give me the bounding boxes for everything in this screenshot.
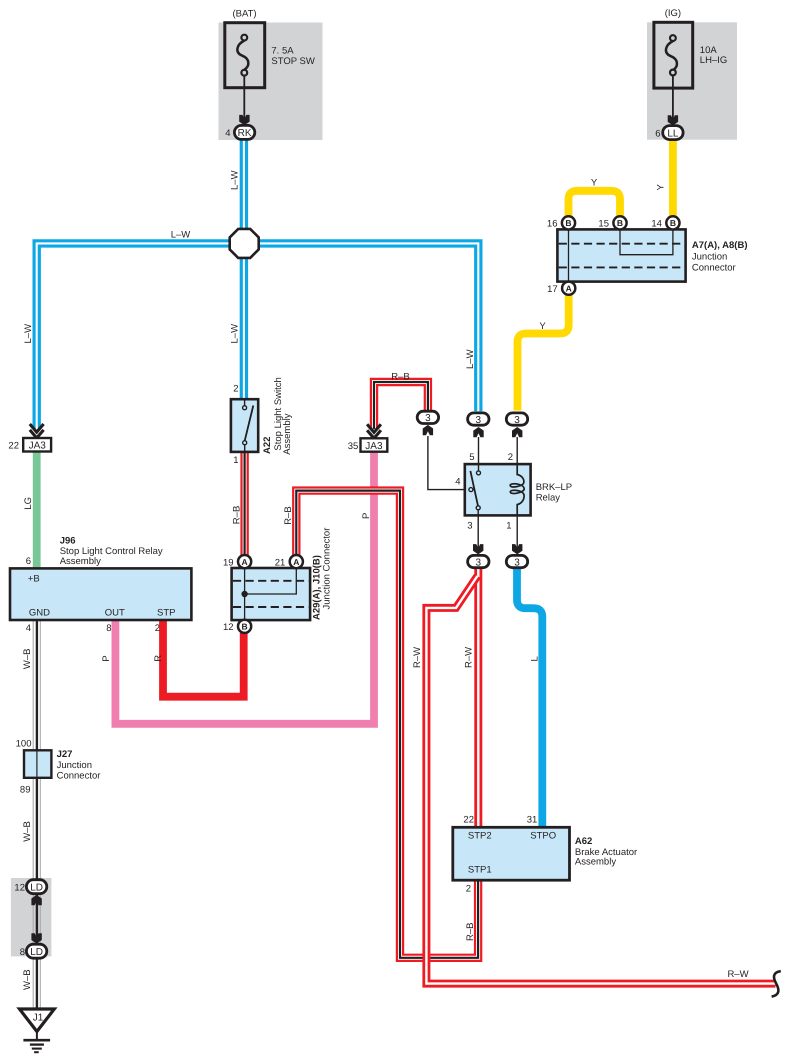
arrow into RK: [239, 115, 249, 125]
svg-text:5: 5: [469, 452, 474, 463]
wire R red (J96 STP to 12(B)): [163, 620, 244, 697]
ground J1: [20, 1009, 55, 1052]
oval connector 3 (top of relay pin 5 line): [473, 427, 483, 437]
wire P pink (J96 OUT to 35 JA3): [115, 452, 374, 724]
A29(A),J10(B) junction connector box: [232, 568, 311, 620]
connector circle 16(B): [562, 216, 575, 229]
svg-text:2: 2: [155, 623, 160, 634]
svg-text:7. 5A: 7. 5A: [271, 46, 294, 57]
svg-text:J96: J96: [60, 536, 76, 547]
wire R-W branch (diagonal, left, down, then right off page): [426, 576, 775, 984]
svg-text:3: 3: [476, 415, 482, 426]
fuse symbol BAT: [237, 41, 248, 70]
svg-text:R–W: R–W: [464, 647, 475, 668]
connector box 22 JA3: [23, 438, 51, 452]
svg-text:6: 6: [655, 128, 660, 139]
connector circle 15(B): [613, 216, 626, 229]
dashed line upper: [233, 580, 309, 582]
internal lead 15(B) to 14(B) U-link: [620, 230, 673, 254]
BRK-LP relay box: [465, 464, 531, 515]
svg-text:P: P: [361, 513, 372, 519]
svg-text:6: 6: [26, 556, 31, 567]
wire R-B U-loop (35 JA3 up over to oval 3 at relay pin 4 line): [374, 382, 428, 429]
svg-text:Connector: Connector: [692, 263, 736, 274]
svg-text:LL: LL: [667, 128, 679, 139]
svg-text:4: 4: [225, 128, 230, 139]
A62 Brake Actuator Assembly box: [453, 827, 570, 880]
svg-text:17: 17: [547, 284, 558, 295]
A22 Stop Light Switch Assembly box: [231, 399, 258, 452]
svg-text:JA3: JA3: [365, 441, 383, 452]
svg-text:LH–IG: LH–IG: [700, 55, 727, 66]
connector circle 14(B): [666, 216, 679, 229]
svg-text:STOP SW: STOP SW: [271, 56, 314, 67]
svg-text:STPO: STPO: [530, 831, 556, 842]
oval connector 12 LD: [26, 880, 46, 894]
svg-text:3: 3: [425, 413, 431, 424]
svg-text:LD: LD: [30, 883, 43, 894]
wire Y (17(A) down jog left to oval 3): [518, 295, 569, 411]
svg-text:A: A: [566, 284, 572, 294]
fuse symbol IG: [666, 41, 677, 70]
gray panel LD shield connector: [11, 878, 52, 956]
wire Y jumper (16(B) up over to 15(B)): [569, 191, 621, 217]
internal lead 19(A) to 12(B): [244, 568, 246, 620]
wire L blue (oval 3 under relay pin 1 to A62 STPO): [517, 569, 542, 828]
svg-text:Relay: Relay: [536, 492, 561, 503]
svg-text:(BAT): (BAT): [232, 9, 256, 20]
svg-text:R–B: R–B: [465, 923, 476, 941]
svg-text:21: 21: [275, 557, 286, 568]
arrow up below 12 LD: [31, 895, 41, 905]
relay coil: [510, 464, 524, 515]
internal lead: [36, 750, 38, 778]
svg-text:LD: LD: [30, 947, 43, 958]
svg-text:B: B: [565, 218, 571, 228]
connector circle 17(A): [562, 282, 575, 295]
wire R-B (A22 pin 1 to 19(A)): [240, 452, 248, 555]
svg-text:Y: Y: [539, 321, 546, 332]
chevron arrow into 22 JA3: [30, 424, 44, 438]
lead fuse BAT to RK arrow: [243, 76, 245, 123]
svg-text:R: R: [153, 655, 164, 662]
svg-text:14: 14: [651, 219, 662, 230]
lead fuse IG to LL arrow: [672, 76, 674, 123]
svg-text:R–W: R–W: [412, 647, 423, 668]
svg-text:8: 8: [106, 623, 111, 634]
oval connector 3 (below relay pin 3): [473, 544, 483, 554]
svg-text:L–W: L–W: [230, 170, 241, 190]
svg-text:Junction Connector: Junction Connector: [322, 528, 333, 610]
svg-text:J27: J27: [57, 749, 73, 760]
wire L-W main (from RK oval down through node, horizontal bus, left branch, right branch): [37, 140, 479, 429]
gray panel BAT fuse block: [219, 23, 323, 141]
svg-text:3: 3: [514, 557, 520, 568]
wire R-W main (oval 3 under relay pin 3 to A62 STP2): [474, 569, 482, 828]
switch pin 1 contact and lead: [243, 441, 247, 445]
relay pin 5 internal lead and contact: [478, 464, 480, 471]
svg-text:Junction: Junction: [692, 252, 727, 263]
svg-text:12: 12: [14, 883, 25, 894]
svg-text:B: B: [670, 218, 676, 228]
svg-text:Assembly: Assembly: [575, 857, 616, 868]
svg-text:Connector: Connector: [57, 771, 101, 782]
switch blade: [245, 406, 254, 441]
svg-text:19: 19: [223, 557, 234, 568]
svg-text:3: 3: [514, 415, 520, 426]
svg-text:22: 22: [463, 814, 474, 825]
lead relay bottom pins 3 and 1 down to arrows: [478, 515, 517, 553]
svg-text:2: 2: [508, 452, 513, 463]
internal lead dot to 21(A): [245, 568, 297, 594]
dashed line upper: [559, 243, 685, 245]
svg-text:R–B: R–B: [231, 506, 242, 524]
oval connector 3 (top of relay pin 4 line): [423, 425, 433, 435]
svg-text:89: 89: [20, 785, 31, 796]
svg-text:Junction: Junction: [57, 760, 92, 771]
internal junction dot: [241, 591, 247, 597]
svg-text:STP2: STP2: [468, 831, 492, 842]
relay pin 4 contact and lead out left: [469, 488, 473, 492]
svg-text:A: A: [242, 557, 248, 567]
svg-text:A22: A22: [262, 437, 273, 454]
lead from oval 3 down to relay pin 4: [428, 436, 465, 490]
connector circle 19(A): [238, 555, 251, 568]
gray panel IG fuse block: [647, 22, 737, 139]
svg-text:(IG): (IG): [665, 8, 681, 19]
switch pin 2 lead and contact: [244, 399, 246, 406]
svg-text:R–W: R–W: [727, 969, 748, 980]
J96 Stop Light Control Relay Assembly box: [10, 568, 191, 620]
J27 junction connector box: [24, 750, 51, 778]
svg-text:B: B: [242, 622, 248, 632]
relay moving contact bottom: [476, 506, 480, 510]
svg-text:Y: Y: [655, 184, 666, 191]
arrow into LL: [668, 115, 678, 125]
svg-text:3: 3: [467, 521, 472, 532]
svg-text:W–B: W–B: [22, 969, 33, 990]
wire LG (22 JA3 to J96 +B): [33, 452, 41, 569]
oval connector 6 LL: [663, 126, 683, 140]
svg-text:4: 4: [455, 477, 460, 488]
svg-text:1: 1: [506, 521, 511, 532]
svg-text:L–W: L–W: [23, 324, 34, 344]
wire R-B long loop (21(A) up, right, down, right, up to A62 STP1 pin 2): [296, 491, 478, 958]
svg-text:B: B: [617, 218, 623, 228]
svg-text:Y: Y: [591, 178, 598, 189]
svg-text:L–W: L–W: [171, 230, 191, 241]
svg-text:2: 2: [233, 384, 238, 395]
svg-text:STP1: STP1: [468, 865, 492, 876]
svg-text:A: A: [293, 557, 299, 567]
connector circle 12(B): [238, 620, 251, 633]
fuse box IG: [654, 22, 693, 88]
svg-text:31: 31: [527, 814, 538, 825]
thin black lead lines: [244, 76, 673, 553]
svg-text:A62: A62: [575, 836, 592, 847]
svg-text:100: 100: [16, 739, 32, 750]
svg-text:R–B: R–B: [391, 372, 409, 383]
dashed line lower: [233, 606, 309, 608]
fuse box BAT: [225, 23, 265, 88]
svg-text:R–B: R–B: [283, 506, 294, 524]
oval connector 3 (top of relay pin 2 line): [512, 427, 522, 437]
A7(A),A8(B) junction connector box: [557, 229, 685, 281]
svg-text:1: 1: [233, 455, 238, 466]
svg-text:J1: J1: [33, 1013, 44, 1024]
connector box 35 JA3: [361, 438, 388, 451]
svg-text:L–W: L–W: [229, 324, 240, 344]
svg-text:L–W: L–W: [465, 349, 476, 369]
svg-text:W–B: W–B: [22, 649, 33, 670]
svg-text:GND: GND: [29, 608, 50, 619]
svg-text:OUT: OUT: [105, 608, 125, 619]
svg-text:A7(A), A8(B): A7(A), A8(B): [692, 240, 748, 251]
svg-text:4: 4: [26, 623, 31, 634]
oval connector 8 LD: [26, 944, 46, 958]
svg-text:LG: LG: [23, 497, 34, 510]
svg-text:JA3: JA3: [29, 441, 47, 452]
continuation squiggle R-W off page: [772, 971, 781, 996]
svg-text:+B: +B: [28, 574, 40, 585]
svg-text:3: 3: [476, 557, 482, 568]
oval connector 3 (below relay pin 1): [512, 544, 522, 554]
internal lead 16(B) to 17(A): [568, 230, 570, 281]
node octagon junction: [230, 229, 259, 258]
svg-text:P: P: [101, 655, 112, 661]
arrow down above 8 LD: [31, 933, 41, 943]
svg-text:Assembly: Assembly: [60, 556, 101, 567]
oval connector 4 RK: [234, 125, 254, 139]
lead oval3 arrows to relay top pins 5 and 2: [479, 437, 518, 464]
svg-text:Assembly: Assembly: [282, 413, 293, 454]
dashed line lower: [559, 266, 685, 268]
chevron arrow into 35 JA3: [367, 424, 381, 438]
wire W-B (J96 GND down to ground, through J27 and LD): [32, 620, 34, 1009]
connector circle 21(A): [290, 555, 303, 568]
svg-text:STP: STP: [157, 608, 175, 619]
svg-text:RK: RK: [238, 128, 252, 139]
wire Y (LL oval down to 14(B)): [669, 140, 677, 218]
svg-text:L: L: [530, 656, 541, 661]
svg-text:35: 35: [348, 441, 359, 452]
svg-text:W–B: W–B: [22, 821, 33, 842]
svg-text:15: 15: [598, 219, 609, 230]
svg-text:8: 8: [20, 947, 25, 958]
svg-text:12: 12: [223, 622, 234, 633]
svg-text:16: 16: [547, 219, 558, 230]
svg-text:22: 22: [8, 440, 19, 451]
relay switch blade: [470, 471, 478, 506]
svg-text:2: 2: [466, 884, 471, 895]
